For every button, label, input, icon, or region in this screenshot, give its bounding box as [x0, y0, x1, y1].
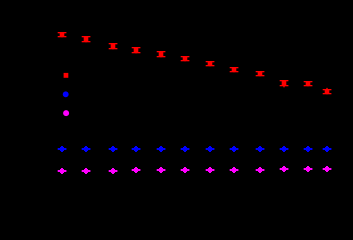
red errorbar point 2: [82, 36, 91, 42]
magenta diamond point 12: [323, 166, 332, 172]
magenta diamond point 4: [132, 167, 141, 173]
red errorbar point 1: [58, 32, 67, 37]
blue diamond point 1: [58, 146, 67, 152]
legend magenta circle: [63, 110, 69, 116]
red errorbar point 3: [109, 43, 118, 49]
magenta diamond point 7: [206, 167, 215, 173]
magenta diamond point 3: [109, 168, 118, 174]
magenta diamond point 6: [181, 167, 190, 173]
blue diamond point 8: [230, 146, 239, 152]
red errorbar point 9: [256, 71, 265, 76]
magenta diamond point 5: [157, 167, 166, 173]
legend blue circle: [63, 91, 69, 97]
blue diamond point 9: [256, 146, 265, 152]
red errorbar point 4: [132, 47, 141, 53]
magenta diamond point 2: [82, 168, 91, 174]
legend red square: [64, 73, 69, 78]
blue diamond point 2: [82, 146, 91, 152]
blue diamond point 6: [181, 146, 190, 152]
blue diamond point 11: [304, 146, 313, 152]
blue diamond point 10: [280, 146, 289, 152]
magenta diamond point 1: [58, 168, 67, 174]
blue diamond point 5: [157, 146, 166, 152]
red errorbar point 11: [304, 81, 313, 86]
blue diamond point 4: [132, 146, 141, 152]
red errorbar point 7: [206, 61, 215, 66]
red errorbar point 8: [230, 67, 239, 72]
red errorbar point 5: [157, 51, 166, 57]
blue diamond point 12: [323, 146, 332, 152]
magenta diamond point 10: [280, 166, 289, 172]
blue diamond point 3: [109, 146, 118, 152]
magenta diamond point 8: [230, 167, 239, 173]
red errorbar point 12: [323, 88, 332, 94]
red errorbar point 6: [181, 56, 190, 61]
magenta diamond point 9: [256, 167, 265, 173]
magenta diamond point 11: [304, 166, 313, 172]
blue diamond point 7: [206, 146, 215, 152]
red errorbar point 10: [280, 80, 289, 87]
